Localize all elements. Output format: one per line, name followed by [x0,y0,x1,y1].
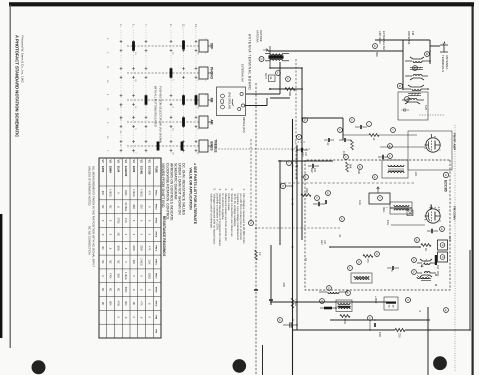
callout 22 [375,252,380,257]
svg-text:90K: 90K [116,274,119,279]
board jumper wire [232,99,233,106]
wire plate feed [302,117,343,119]
callout F [391,128,396,133]
svg-text:47K: 47K [140,301,143,306]
svg-text:1 MEG: 1 MEG [124,272,127,280]
svg-text:EM84: EM84 [109,166,113,173]
svg-text:1.: 1. [242,189,246,192]
coil L7 IF link [328,292,339,293]
coil L5 FM osc [420,259,432,261]
svg-text:270: 270 [398,333,402,338]
callout 14 T1 [388,144,393,149]
resistor R6 [346,162,349,172]
svg-text:1 MEG: 1 MEG [109,189,112,197]
callout 21 [412,270,417,275]
svg-text:500: 500 [288,92,292,97]
svg-text:G: G [373,45,376,47]
wafer row 3 [120,30,122,155]
svg-text:3.: 3. [224,189,228,192]
svg-text:mmf: mmf [310,168,313,173]
wire screen feed [270,88,303,90]
svg-text:220K: 220K [132,245,135,251]
svg-text:PIN: PIN [155,315,157,319]
resistor R20 [255,250,258,260]
capacitor C17 [392,266,393,270]
svg-text:V1: V1 [147,160,151,164]
svg-text:PIN 8: PIN 8 [155,287,157,293]
plunger line S1-3 [127,99,199,101]
svg-text:1 MEG: 1 MEG [132,189,135,197]
svg-text:FM RF AMP: FM RF AMP [453,133,457,150]
svg-text:OSC: OSC [436,271,439,277]
wire antenna feed rail [268,50,403,52]
callout J [304,175,309,180]
svg-text:MEG: MEG [382,207,384,212]
osc core bar [435,255,437,265]
wire dashed osc line [250,139,252,223]
svg-text:A PHOTOFACT STANDARD NOTATION: A PHOTOFACT STANDARD NOTATION SCHEMATIC [15,35,20,137]
svg-text:12K: 12K [414,172,417,177]
svg-text:PIN 5: PIN 5 [155,245,157,251]
capacitor C5 bypass [301,148,302,152]
svg-text:V2: V2 [140,160,144,164]
svg-text:100K: 100K [116,245,119,251]
svg-text:NC NO CONNECTION: NC NO CONNECTION [88,226,92,255]
FM tuner shield dashed box [305,160,450,290]
wire cathode bus [296,145,298,330]
coil L6 FM osc trimmer [420,275,432,277]
callout 13b [326,191,331,196]
callout B psu [406,298,411,303]
svg-text:PIN 7: PIN 7 [155,273,157,279]
closed contact bars [132,42,135,51]
svg-text:1K: 1K [372,138,375,141]
svg-text:ECC85: ECC85 [147,166,151,175]
svg-text:NC: NC [116,233,119,237]
coil L9 choke [417,277,429,279]
svg-text:-1.5V: -1.5V [437,206,441,212]
svg-text:90K: 90K [132,260,135,265]
svg-text:J: J [304,176,306,177]
svg-text:V4: V4 [124,160,128,164]
svg-text:7→: 7→ [144,24,148,28]
svg-text:56K: 56K [349,164,352,169]
svg-text:(FM) GROUND: (FM) GROUND [228,92,231,109]
wire AVC dashed bus [255,83,257,375]
tube V1B FM converter triode [425,205,441,223]
osc trimmer arrows [421,259,427,267]
svg-text:C: C [297,136,300,138]
callout L [287,161,292,166]
page border top edge [472,4,474,375]
label 4a box [269,75,276,82]
callout N2 [249,221,254,226]
callout D bus [368,316,373,321]
trimmer block 29 [438,252,448,262]
svg-text:2.: 2. [230,189,234,192]
wafer row 5 [133,30,135,155]
wire AM gang vertical [375,39,430,41]
junction on if line [374,319,376,321]
wire dashed AGC line [295,59,297,179]
svg-text:68Ω: 68Ω [132,204,135,209]
svg-text:NC: NC [101,246,104,250]
svg-text:©Howard W. Sams & Co., Inc. 19: ©Howard W. Sams & Co., Inc. 1962 [21,35,25,83]
svg-text:NC: NC [109,288,112,292]
callout G2 [373,44,378,49]
wire det box top [278,160,333,162]
svg-text:47K: 47K [147,246,150,251]
binder hole top [433,356,447,370]
svg-text:NC: NC [101,302,104,306]
callout H coil [405,97,410,102]
svg-text:PIN 3: PIN 3 [155,218,157,224]
resistor R30 on B+ rail [395,328,405,331]
svg-text:1K: 1K [424,248,427,251]
FM RF coil box [398,92,428,120]
core laminations L3 L4 [408,93,421,95]
junction dots [429,50,431,52]
svg-text:470K: 470K [109,273,112,279]
svg-text:100Ω: 100Ω [147,273,150,279]
svg-text:270Ω: 270Ω [116,218,119,224]
svg-text:VALUE OR APPLICATION: VALUE OR APPLICATION [189,168,193,211]
wire if link [390,207,412,209]
svg-text:90K: 90K [101,191,104,196]
terminal top lugs [240,92,243,95]
capacitor C21 [382,155,383,159]
plunger line S1-5 [127,145,199,147]
svg-text:10K: 10K [342,151,345,156]
coil L8 det [351,273,372,283]
callout 15 psu [278,318,283,323]
transformer T4 box [336,300,352,312]
callout 25 [327,286,332,291]
terminal lug ext AM [221,94,225,98]
wire dotted rail right of tuner [454,125,456,372]
callout O [346,291,351,296]
callout P [320,299,325,304]
wire AM osc line [270,97,290,99]
wire dipole lead [430,45,440,47]
svg-text:NC: NC [132,302,135,306]
svg-text:H: H [405,98,408,100]
svg-text:PIN 9: PIN 9 [155,301,157,307]
svg-text:47K: 47K [366,259,369,264]
capacitor C23 [431,229,432,233]
resistor R8 [421,244,431,247]
callout E [286,77,291,82]
resistor R28 1 meg [291,298,294,308]
wire board to T3 [246,93,280,95]
page border bottom edge [9,5,11,348]
callout G coil [397,83,402,88]
arrow T3 adjust [263,49,268,52]
svg-text:6.8K: 6.8K [378,332,381,337]
callout 23 [357,260,362,265]
wafer row 7 [145,30,147,155]
svg-text:EXTERNAL AM: EXTERNAL AM [241,64,245,82]
svg-text:NC: NC [109,260,112,264]
callout K [315,196,320,201]
callout R [350,118,355,123]
capacitor C30 plus [290,322,291,327]
wire B+ rail vertical [405,329,470,331]
svg-text:mmf: mmf [320,240,322,245]
svg-text:10 MEG: 10 MEG [124,202,127,211]
svg-text:500K: 500K [124,287,127,293]
callout 16 [373,175,378,180]
svg-text:EF89: EF89 [132,166,136,173]
junction dots det [292,160,294,162]
coil L4 FM RF grid [405,102,420,104]
wire FM ant down lead [402,40,404,90]
wire output stub [427,307,429,375]
svg-text:2.2K: 2.2K [124,218,127,223]
plunger line S1-1 [127,45,199,47]
svg-text:ECH81: ECH81 [140,166,144,175]
capacitor C9 100mmf [312,164,313,168]
callout I [367,122,372,127]
svg-text:3.3K: 3.3K [358,200,361,205]
wafer row 11 [183,30,185,155]
callout N det [348,266,353,271]
svg-text:● SEE PARTS LIST FOR ALTERNATE: ● SEE PARTS LIST FOR ALTERNATE [193,163,197,225]
callout 17 [340,217,345,222]
svg-text:PUSH-BUTTON SELECTOR SW. (4)A: PUSH-BUTTON SELECTOR SW. (4)A SHOWN [159,86,163,143]
svg-text:ANTENNA: ANTENNA [256,30,260,43]
svg-text:volume control at minimum.: volume control at minimum. [209,194,213,230]
svg-text:ANTENNA TERMINAL BOARD: ANTENNA TERMINAL BOARD [248,34,252,90]
resistor R22 470K [340,315,350,318]
wire board gnd lead [245,105,268,107]
wire dashed band switch link [215,148,310,150]
svg-text:ANT 300Ω: ANT 300Ω [378,31,382,44]
wafer row 9 [170,30,172,155]
svg-text:TERMINALS: TERMINALS [441,55,445,72]
arrow osc box [377,187,380,193]
svg-text:22K: 22K [140,205,143,210]
FM dipole antenna symbol [440,45,448,52]
svg-text:5.: 5. [212,189,216,192]
capacitor C12 [325,200,326,204]
callout M on bus [280,183,285,188]
svg-text:90K: 90K [109,301,112,306]
capacitor C14 .02 [328,138,329,142]
svg-text:8.2K: 8.2K [386,220,389,225]
svg-text:mmf: mmf [301,152,303,157]
svg-text:1.5K: 1.5K [147,260,150,265]
svg-text:9→: 9→ [169,24,173,28]
coil L1 FM antenna primary [410,57,424,59]
callout H2 [276,71,281,76]
svg-text:FM CONV: FM CONV [453,206,457,221]
resistor R12 47K [363,255,373,258]
junction cluster cathode [296,149,298,151]
callout 27 [338,128,343,133]
capacitor C7 [360,125,361,129]
ground at RF coil [402,108,409,112]
wire heater rail [469,250,471,330]
svg-text:NC: NC [116,288,119,292]
coil L3 FM RF plate [408,85,424,87]
svg-text:4.: 4. [218,189,222,192]
svg-text:1 MEG: 1 MEG [140,189,143,197]
callout 11 trimmer [425,52,430,57]
wire stub v1a cathode [379,134,417,136]
wire v1b grid lead [391,224,425,226]
svg-text:PIN: PIN [155,329,157,333]
oscillator adjust box F [369,193,390,204]
svg-text:EABC80: EABC80 [124,166,128,177]
svg-text:N: N [249,222,252,224]
svg-text:470K: 470K [343,319,346,325]
terminal lug dipole [221,105,225,109]
wire am if stub [262,345,264,375]
svg-text:O: O [346,292,348,294]
svg-text:220K: 220K [305,188,308,194]
callout D mid [344,155,349,160]
capacitor C38 [344,138,345,142]
svg-text:11→: 11→ [182,24,186,30]
callout 15 [358,165,363,170]
svg-text:BASS: BASS [210,141,214,151]
binder hole bottom [32,360,46,374]
svg-text:NC: NC [116,260,119,264]
svg-text:NC: NC [109,205,112,209]
svg-text:5-25: 5-25 [424,105,427,110]
trimmer box X [407,210,413,216]
coil L2 FM antenna secondary [410,78,424,80]
svg-text:EXTERNAL FM: EXTERNAL FM [382,31,386,50]
wire det box left [279,160,281,245]
svg-text:EL84: EL84 [116,166,120,173]
page edge black strip bottom [0,214,2,338]
svg-text:V3: V3 [132,160,136,164]
T4 core bars [338,306,351,308]
svg-text:13→: 13→ [194,24,198,30]
junction dots extra [292,149,294,151]
svg-text:500: 500 [375,52,379,57]
svg-text:3→: 3→ [119,24,123,28]
callout 24 [444,308,449,313]
capacitor C10 [318,202,319,206]
svg-text:TUBE: TUBE [155,166,158,173]
callout C [297,135,302,140]
terminal lug gnd [221,99,224,104]
label tube type ECC85 [443,172,448,177]
callout 26 [303,118,308,123]
svg-text:5→: 5→ [132,24,136,28]
wire B+ bottom bus [292,119,294,375]
svg-text:1 MEG: 1 MEG [140,258,143,266]
wire v1a grid lead [380,146,425,148]
svg-text:30mf: 30mf [264,73,267,79]
svg-text:+: + [291,319,295,321]
resistor R31 [351,140,354,150]
svg-text:+150V: +150V [374,296,377,304]
svg-text:ANTENNA: ANTENNA [407,31,411,44]
svg-text:220K: 220K [124,190,127,196]
wire det column [330,246,420,248]
svg-text:WITH ALL BUTTONS RELEASED: WITH ALL BUTTONS RELEASED [154,86,158,127]
resistor R2 500 [285,88,295,91]
trimmer block 28 [438,240,448,250]
svg-text:DIPOLE (FM): DIPOLE (FM) [242,117,246,133]
callout 13 T1 [388,154,393,159]
callout 19 [415,238,420,243]
svg-text:AFC: AFC [448,236,452,241]
power supply box [384,297,398,310]
callout B T3 [259,57,264,62]
antenna terminal board box [217,87,246,116]
svg-text:ECC85: ECC85 [443,180,447,192]
svg-text:1 MEG: 1 MEG [294,299,296,306]
svg-text:PIN 4: PIN 4 [155,232,158,238]
binder hole middle [233,359,247,373]
wire det out [270,245,272,305]
transformer T3 AM antenna [269,55,284,58]
resistor R4 [369,134,379,137]
svg-text:V7: V7 [101,160,105,164]
svg-text:NC: NC [101,260,104,264]
plunger line S1-4 [127,121,199,123]
svg-text:M: M [281,185,284,187]
wire dashed tuning gang link [295,141,305,143]
capacitor C28 [254,289,258,290]
svg-text:PIN 6: PIN 6 [155,259,157,265]
svg-text:UNLESS OTHERWISE NOTED.: UNLESS OTHERWISE NOTED. [88,166,92,206]
svg-text:FM: FM [436,265,439,269]
svg-text:220K: 220K [140,245,143,251]
core laminations L1 L2 [410,67,423,69]
tube V1A FM RF amp triode [425,134,441,152]
svg-text:NC: NC [101,205,104,209]
svg-text:RESISTANCE READINGS: RESISTANCE READINGS [162,216,166,257]
callout 12 trimmer [413,66,418,71]
wire agc horizontal [280,182,414,184]
capacitor C36 [374,323,375,327]
svg-text:NC: NC [101,288,104,292]
wire grid return [270,67,302,69]
svg-text:V5: V5 [116,160,120,164]
callout 20 [412,258,417,263]
wire screen junctions [269,88,271,90]
wire plate link T3 [269,46,271,68]
core laminations L5 L6 [421,278,431,280]
electrolytic C40 [324,307,332,310]
svg-text:47K: 47K [147,191,150,196]
wire converter column [270,301,390,303]
svg-text:PIN 2: PIN 2 [155,204,157,210]
page border left edge band [9,2,474,6]
svg-text:A: A [444,174,448,176]
dash gang line FM tuner [418,114,444,116]
table outer border [99,158,161,338]
svg-text:470K: 470K [116,301,119,307]
svg-text:OUTSIDE: OUTSIDE [259,30,263,42]
wire if output line [330,319,430,321]
svg-text:PIN 1: PIN 1 [155,190,157,196]
callout 18 [440,227,445,232]
svg-text:.005: .005 [282,282,285,287]
svg-text:90K: 90K [124,301,127,306]
svg-text:VIEWED FROM SHAFT END.: VIEWED FROM SHAFT END. [161,163,165,208]
plunger line S1-2 [127,72,199,74]
svg-text:V6: V6 [109,160,113,164]
transformer T2 FM IF box [390,202,412,214]
grid arrow V1B [430,204,433,209]
